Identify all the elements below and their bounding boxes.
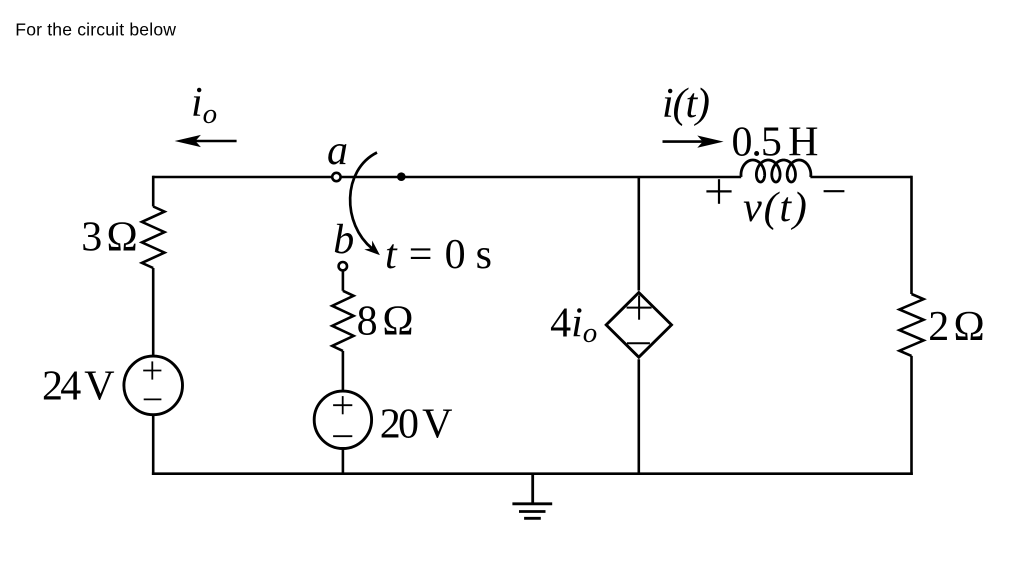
wire left vertical upper — [152, 176, 155, 207]
wire between R2 and V2 — [342, 351, 345, 391]
resistor R1 3ohm zigzag — [142, 207, 165, 269]
source V2 minus sign — [333, 435, 352, 437]
wire below V2 to bottom — [342, 448, 345, 473]
source V1 plus sign — [143, 361, 161, 379]
switch pivot junction dot — [397, 172, 406, 181]
current arrow i(t) — [697, 136, 723, 148]
switch S1 throw arc — [350, 153, 377, 249]
svg-text:4io: 4io — [550, 301, 597, 350]
switch S1 arc arrowhead — [364, 240, 384, 259]
source V1 24V circle — [124, 356, 183, 415]
wire left vertical between R1 and V1 — [152, 268, 155, 356]
node b terminal circle — [339, 262, 347, 270]
wire dependent-source branch upper — [637, 177, 640, 291]
svg-text:b: b — [333, 217, 354, 263]
svg-text:t = 0 s: t = 0 s — [385, 232, 492, 278]
svg-text:8 Ω: 8 Ω — [357, 299, 414, 345]
wire top right segment (inductor to right corner) — [810, 176, 911, 179]
svg-text:a: a — [327, 128, 348, 174]
wire switch branch b to R2 — [342, 271, 345, 290]
dependent source minus sign — [627, 342, 650, 344]
svg-text:3 Ω: 3 Ω — [81, 215, 138, 261]
inductor voltage plus sign — [706, 179, 731, 204]
wire bottom horizontal — [152, 472, 913, 475]
svg-text:v(t): v(t) — [743, 185, 807, 231]
source V2 plus sign — [333, 396, 352, 414]
svg-text:For the circuit below: For the circuit below — [15, 20, 176, 40]
source V1 minus sign — [144, 398, 162, 400]
dependent source U1 diamond — [606, 293, 671, 358]
current arrow io — [175, 135, 201, 147]
source V2 20V circle — [314, 391, 371, 448]
resistor R3 2ohm zigzag — [899, 294, 923, 356]
inductor voltage minus sign — [824, 190, 845, 192]
wire top left segment (node to switch node a) — [153, 176, 741, 179]
resistor R2 8ohm zigzag — [332, 291, 353, 351]
svg-text:20 V: 20 V — [380, 402, 453, 448]
svg-text:2 Ω: 2 Ω — [928, 304, 985, 350]
wire right vertical upper — [910, 176, 913, 294]
wire left vertical below V1 — [152, 415, 155, 475]
node a terminal circle — [332, 173, 340, 181]
svg-text:i(t): i(t) — [662, 81, 710, 127]
wire dependent-source branch lower — [637, 359, 640, 474]
dependent source plus sign — [627, 295, 652, 319]
wire right vertical lower — [910, 356, 913, 475]
inductor L1 coil — [741, 160, 811, 182]
svg-text:0.5 H: 0.5 H — [732, 119, 819, 165]
svg-text:io: io — [191, 80, 217, 130]
ground symbol — [512, 474, 552, 519]
svg-text:24 V: 24 V — [42, 363, 115, 409]
